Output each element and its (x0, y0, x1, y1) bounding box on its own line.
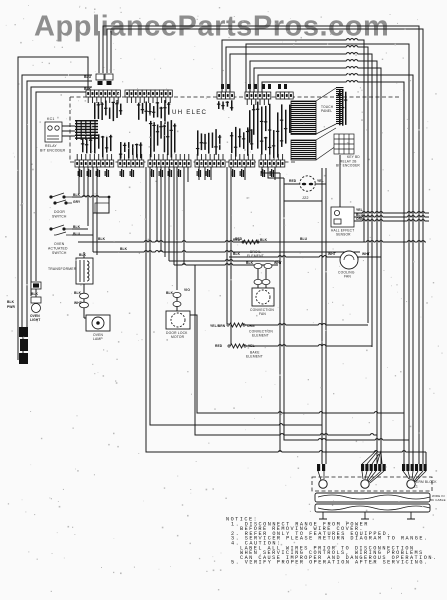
convection fan (252, 288, 274, 306)
wire cover bar (315, 493, 430, 502)
connector bottom P5 (229, 154, 255, 167)
wire (168, 167, 170, 261)
wire (183, 167, 185, 265)
wire (83, 252, 85, 258)
svg-text:DOOR: DOOR (54, 210, 65, 214)
wire (36, 92, 92, 281)
wire (284, 200, 322, 202)
harness plug B (31, 297, 41, 303)
svg-text:UH ELEC: UH ELEC (172, 109, 207, 116)
wire (83, 167, 85, 197)
svg-text:FAN: FAN (259, 312, 266, 316)
wire (204, 167, 206, 180)
svg-text:GRY: GRY (73, 200, 81, 204)
wire (425, 452, 427, 464)
wire (93, 251, 360, 253)
svg-text:BLK: BLK (73, 225, 81, 229)
svg-text:WHT: WHT (74, 301, 82, 305)
connector top J3 (217, 92, 234, 99)
svg-text:BLK: BLK (166, 291, 174, 295)
wire (169, 260, 280, 262)
wire keyboard feed (321, 168, 323, 464)
svg-text:BLK: BLK (98, 237, 106, 241)
svg-text:SWITCH: SWITCH (52, 215, 67, 219)
connector bottom P4 (195, 154, 225, 167)
wire (358, 257, 381, 260)
svg-text:WHT: WHT (362, 252, 370, 256)
pin labels board right pins (338, 90, 347, 126)
wire (22, 337, 24, 353)
wire (83, 299, 85, 302)
svg-text:TERM BLOCK: TERM BLOCK (414, 480, 437, 484)
svg-text:ELEMENT: ELEMENT (252, 334, 269, 338)
bake element (230, 344, 245, 348)
svg-text:YEL: YEL (317, 179, 324, 183)
wire BLK run (78, 241, 426, 243)
wire (187, 167, 189, 182)
wire (72, 234, 93, 236)
encoder table (75, 120, 98, 140)
wire (156, 167, 158, 242)
door lock motor (166, 311, 190, 329)
svg-text:SENSOR: SENSOR (336, 233, 351, 237)
lamp plugs (80, 293, 89, 308)
pin labels P2 pins (119, 142, 142, 159)
wire (98, 31, 100, 73)
wire (110, 31, 112, 73)
wire encoder to hall sensor (339, 155, 341, 207)
wire (190, 315, 404, 413)
svg-text:ACTUATED: ACTUATED (48, 247, 68, 251)
svg-text:BLU: BLU (84, 75, 92, 79)
svg-text:BLK: BLK (260, 238, 268, 242)
wire (27, 81, 92, 325)
svg-text:BLK: BLK (246, 261, 254, 265)
wire (107, 29, 423, 464)
svg-text:RED: RED (289, 179, 297, 183)
svg-text:TRANSFORMER: TRANSFORMER (48, 267, 77, 271)
svg-text:BLK: BLK (7, 300, 15, 304)
touch panel ribbon (316, 88, 336, 160)
svg-text:KC1: KC1 (47, 117, 55, 121)
wire (83, 284, 85, 293)
connector top J4 (245, 92, 271, 105)
wire (246, 345, 372, 347)
cooling fan (340, 251, 358, 269)
connector P1 plug (96, 74, 113, 85)
wire (96, 167, 98, 255)
svg-text:YEL/BRN: YEL/BRN (210, 324, 226, 328)
pin labels P6 pins (260, 130, 283, 158)
svg-text:PWR: PWR (7, 305, 16, 309)
svg-text:ELEMENT: ELEMENT (247, 254, 264, 258)
terminal L1 (319, 480, 327, 488)
transformer T1 (76, 258, 93, 284)
wire (246, 44, 409, 464)
wire (284, 178, 409, 440)
svg-text:BLK: BLK (73, 193, 81, 197)
keyboard bit encoder (334, 134, 354, 154)
pin labels J1 pins (94, 100, 122, 121)
node J1 (108, 196, 111, 199)
oven lamp (86, 315, 110, 331)
harness lamp (32, 304, 41, 313)
wire (226, 46, 368, 324)
pin labels P1 pins (81, 134, 112, 157)
wire (160, 167, 162, 252)
svg-text:MOTOR: MOTOR (171, 335, 185, 339)
wire long bottom run (146, 167, 426, 452)
connector top J2 (125, 90, 172, 103)
wire (257, 269, 259, 279)
wire to cooling fan (229, 256, 340, 258)
svg-text:BLK: BLK (233, 252, 241, 256)
wire (268, 167, 284, 178)
svg-text:RELAY: RELAY (45, 144, 57, 148)
svg-text:L1: L1 (414, 485, 418, 489)
pin labels J5 pins (276, 104, 291, 143)
convection fan plugs (254, 263, 272, 284)
junction box (95, 203, 109, 213)
pin labels P5 pins (230, 127, 253, 157)
pin labels J3 pins (217, 100, 233, 110)
wire (265, 285, 267, 288)
wire (284, 183, 300, 185)
svg-text:WHT: WHT (274, 261, 282, 265)
svg-text:BLK: BLK (74, 291, 82, 295)
svg-text:RED: RED (233, 238, 241, 242)
svg-text:BK CABLE: BK CABLE (430, 498, 446, 502)
wire (31, 87, 92, 296)
wire (210, 167, 212, 180)
ribbon cable block lower (291, 140, 316, 159)
wire (198, 167, 200, 180)
wire (164, 167, 166, 257)
harness plug A (31, 282, 41, 289)
svg-text:FAN: FAN (344, 275, 351, 279)
wire to door lock (176, 167, 178, 290)
terminal L2 (407, 480, 415, 488)
wire YEL (354, 212, 429, 214)
svg-text:BLU: BLU (300, 237, 308, 241)
wire (103, 26, 419, 464)
oven sensor (300, 176, 315, 191)
connector bottom P6 (259, 154, 285, 167)
wire (84, 308, 86, 318)
wire BLU (354, 216, 429, 218)
wire to door switch (78, 167, 80, 194)
broil element (243, 240, 258, 244)
svg-text:KEY BD: KEY BD (347, 155, 360, 159)
svg-text:BLK: BLK (79, 253, 87, 257)
wire (173, 167, 175, 265)
svg-text:VIO: VIO (184, 288, 190, 292)
terminal block outline (312, 477, 432, 491)
wire (258, 74, 413, 465)
wire terminals L (317, 464, 427, 471)
wire (176, 306, 178, 311)
wire relay to board (62, 126, 75, 136)
wire to convection element (226, 167, 228, 324)
wire (35, 289, 37, 304)
connector bottom P3 (148, 154, 191, 167)
pin labels J4 pins (248, 102, 271, 153)
door lock plugs (173, 292, 181, 306)
svg-text:J22: J22 (302, 196, 309, 200)
wire to term L1 (150, 167, 322, 425)
connector bottom P2 (118, 154, 144, 167)
svg-text:SWITCH: SWITCH (52, 251, 67, 255)
wires into terminals (318, 471, 426, 483)
svg-text:ELEMENT: ELEMENT (246, 355, 263, 359)
wire labels below connectors (78, 169, 274, 177)
svg-text:OVEN: OVEN (54, 242, 65, 246)
wire (26, 325, 28, 327)
svg-text:RED: RED (215, 344, 223, 348)
connector bottom P1 (75, 154, 114, 167)
wire (262, 81, 404, 465)
wire harness (18, 57, 88, 360)
connector top J1 (86, 90, 120, 103)
svg-text:WHT: WHT (328, 252, 336, 256)
wire fan into mid terminals (362, 450, 382, 464)
svg-text:YEL: YEL (356, 208, 363, 212)
svg-text:LAMP: LAMP (93, 337, 103, 341)
wire (265, 269, 267, 279)
svg-text:ORN: ORN (356, 217, 364, 221)
hall effect sensor (331, 207, 354, 227)
wire (250, 60, 377, 465)
wire (254, 67, 381, 465)
door switch (50, 193, 72, 204)
wire ORN (354, 220, 429, 222)
svg-text:BLK: BLK (120, 247, 128, 251)
wire to oven sensor (262, 167, 280, 173)
wire keyboard feed (325, 168, 327, 464)
wire (279, 173, 281, 452)
wire (230, 53, 372, 348)
ribbon cable block upper (291, 101, 316, 134)
convection element (229, 323, 244, 327)
pin labels J2 pins (137, 100, 170, 124)
connector top J5 (276, 92, 293, 99)
wire (72, 228, 88, 230)
wire (274, 167, 276, 180)
control board UH ELEC outline (70, 97, 400, 162)
wire (222, 39, 364, 243)
pin labels P4 pins (196, 129, 221, 156)
wire door switch to node (72, 196, 109, 198)
wire to bake element (230, 167, 232, 345)
harness plug C (19, 327, 28, 364)
relay KC1 (45, 122, 62, 142)
svg-text:PANEL: PANEL (321, 109, 332, 113)
wire (176, 297, 178, 301)
oven light switch (50, 225, 72, 235)
wire (315, 183, 326, 185)
wire (92, 167, 94, 252)
svg-text:LIGHT: LIGHT (30, 318, 40, 322)
pin labels P3 pins (149, 120, 176, 157)
wire (244, 167, 246, 180)
terminal N (361, 480, 369, 488)
wire (174, 264, 278, 266)
power cable (315, 504, 430, 512)
wire (245, 324, 368, 326)
wire (22, 75, 92, 327)
wire (93, 197, 109, 213)
cable legs (319, 512, 415, 519)
wire (87, 167, 89, 226)
connector stubs (221, 84, 287, 89)
svg-text:5. VERIFY PROPER OPERATION AFT: 5. VERIFY PROPER OPERATION AFTER SERVICI… (231, 560, 429, 566)
wire (257, 285, 259, 288)
svg-text:BLK: BLK (31, 292, 39, 296)
wire (195, 265, 377, 464)
